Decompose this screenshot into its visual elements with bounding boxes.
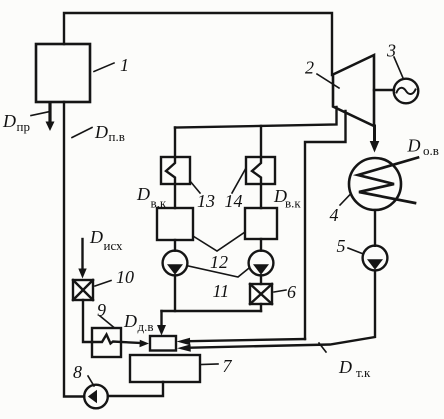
cooling water coil D_o.v	[358, 158, 418, 204]
svg-text:D: D	[136, 184, 150, 204]
svg-text:5: 5	[337, 236, 346, 256]
pump 8 rotor triangle	[88, 390, 97, 403]
svg-text:14: 14	[225, 191, 243, 211]
leader label 10	[95, 281, 111, 287]
svg-text:D: D	[2, 111, 16, 131]
svg-text:D: D	[89, 227, 103, 247]
wire condensate D_t.k from pump 5 to deaerator head	[187, 271, 376, 348]
svg-text:в.к: в.к	[285, 196, 301, 211]
svg-text:д.в: д.в	[138, 319, 154, 334]
leader label 4	[340, 194, 351, 206]
svg-text:о.в: о.в	[423, 143, 439, 158]
leader label 8	[88, 376, 94, 386]
wire valve 10 to heat exchanger 9	[83, 300, 92, 342]
wire distillate collector horizontal	[162, 310, 262, 312]
svg-text:10: 10	[116, 267, 134, 287]
leader label 6	[274, 290, 286, 292]
svg-text:11: 11	[213, 281, 230, 301]
svg-text:7: 7	[223, 356, 233, 376]
svg-text:4: 4	[330, 205, 339, 225]
arrowhead D_t.k into head	[177, 344, 191, 351]
leader label 11	[189, 266, 249, 277]
boiler B1 (label 1)	[36, 44, 90, 102]
pump P5 (label 5)	[363, 246, 388, 271]
svg-text:пр: пр	[17, 119, 30, 134]
steam cooler 13	[161, 157, 190, 184]
leader label 14	[232, 168, 246, 193]
wire evaporator right to pump 11R	[260, 239, 262, 251]
pump 11R rotor triangle	[253, 264, 269, 275]
leader label 7	[200, 363, 218, 366]
valve 10 X cross	[73, 280, 93, 300]
svg-text:т.к: т.к	[356, 365, 371, 380]
arrowhead D_pr	[46, 122, 55, 132]
deaerator tank 7	[130, 355, 200, 382]
leader D_p.v	[72, 128, 92, 138]
svg-text:9: 9	[97, 300, 106, 320]
wire turbine exhaust to condenser	[373, 126, 376, 141]
svg-text:исх: исх	[104, 238, 124, 253]
turbine T (label 2)	[333, 55, 374, 126]
wire extraction 2 from turbine to deaerator	[305, 111, 346, 339]
svg-text:3: 3	[386, 41, 396, 61]
svg-text:D: D	[123, 311, 137, 331]
leader label 1	[94, 63, 114, 72]
raw water line D_iskh	[81, 239, 83, 270]
heat exchanger 9	[92, 328, 121, 357]
heat exchanger 9 coil mark	[92, 335, 121, 344]
pump 5 rotor triangle	[367, 259, 383, 270]
wire evaporator left to pump 11L	[174, 240, 176, 251]
condenser K (label 4)	[349, 158, 401, 210]
valve 6 X cross	[250, 284, 272, 304]
wire additive water D_d.v into head	[121, 342, 141, 343]
evaporator right (label 12)	[245, 208, 277, 239]
arrowhead heating steam into head	[177, 338, 191, 345]
leader label 13	[190, 181, 200, 193]
wire valve 6 down to collector	[260, 304, 262, 311]
wire shaft turbine-generator	[374, 89, 394, 91]
leader label 9	[100, 316, 114, 328]
wire heating steam into head right side	[184, 339, 306, 341]
leader D_t.k	[319, 343, 326, 352]
leader label 3	[394, 57, 403, 78]
leader label 12 (V line)	[193, 232, 245, 251]
svg-text:12: 12	[210, 252, 228, 272]
arrowhead D_d.v into head	[140, 340, 150, 347]
wire tank 7 to pump 8	[108, 382, 163, 396]
arrowhead exhaust into condenser	[370, 141, 380, 153]
svg-text:D: D	[407, 136, 421, 156]
blowdown line D_pr	[48, 103, 51, 123]
leader label 5	[348, 248, 362, 254]
svg-text:2: 2	[305, 58, 314, 78]
svg-text:D: D	[338, 357, 352, 377]
wire right column riser + cooler zigzag 14	[252, 126, 261, 208]
svg-text:1: 1	[120, 55, 129, 75]
wire main steam: boiler top to turbine inlet	[64, 13, 332, 75]
svg-text:в.к: в.к	[151, 196, 167, 211]
svg-text:D: D	[94, 122, 108, 142]
leader D_pr	[31, 112, 50, 116]
svg-text:13: 13	[197, 191, 215, 211]
wire extraction 1 from turbine to heaters 13/14	[175, 107, 337, 128]
steam cooler 14	[246, 157, 275, 184]
svg-text:8: 8	[73, 362, 82, 382]
pump 11 left	[163, 251, 188, 276]
pump 11 right	[249, 251, 274, 276]
valve 10	[73, 280, 93, 300]
wire collector into deaerator head top	[160, 311, 162, 326]
generator tilde symbol	[397, 88, 416, 94]
leader label 2	[317, 74, 339, 88]
pump 11L rotor triangle	[167, 264, 183, 275]
wire feedwater left vertical (D_p.v) down to pump 8	[64, 102, 84, 397]
svg-text:п.в: п.в	[109, 129, 125, 144]
deaerator head	[150, 336, 176, 351]
pump 8	[84, 385, 108, 409]
wire pump 11L down to collector	[174, 275, 176, 311]
wire left column riser + cooler zigzag 13	[166, 128, 175, 209]
arrowhead D_iskh into valve 10	[78, 269, 86, 279]
wire pump 11R to valve 6	[260, 275, 262, 284]
arrowhead into head top	[157, 325, 166, 336]
wire condenser to pump 5	[374, 210, 376, 246]
valve 6	[250, 284, 272, 304]
svg-text:6: 6	[287, 282, 296, 302]
evaporator left (label 12)	[157, 208, 193, 240]
generator G (label 3)	[394, 79, 419, 104]
